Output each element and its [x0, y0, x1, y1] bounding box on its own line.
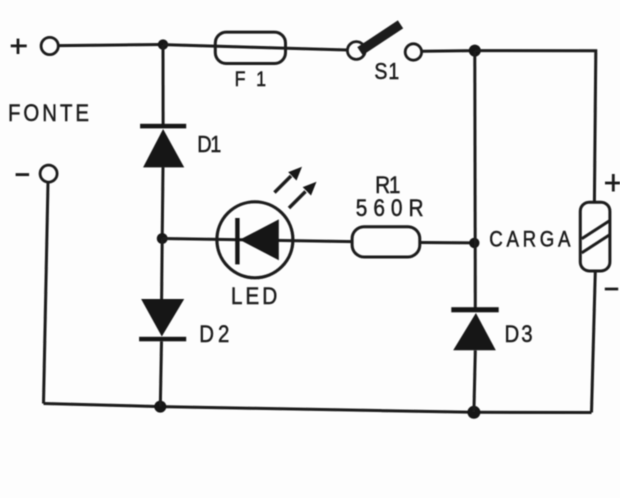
LED cathode bar [235, 218, 239, 264]
LED triangle [240, 219, 279, 260]
wire D3 to bottom junction [474, 350, 475, 412]
plus sign of load [605, 174, 620, 192]
wire middle junction down to D2 [160, 239, 164, 300]
node middle-right junction [469, 238, 479, 248]
wire left branch: top junction down to D1 [162, 45, 165, 125]
svg-text:D1: D1 [197, 131, 221, 158]
svg-text:FONTE: FONTE [8, 99, 89, 126]
LED circle [217, 202, 293, 278]
terminal circle plus [41, 37, 58, 54]
svg-text:S1: S1 [374, 59, 399, 85]
node top-left junction [158, 39, 168, 49]
wire middle rail: junction through LED to R1 [162, 239, 352, 242]
minus sign of load [605, 288, 618, 291]
svg-text:D2: D2 [199, 321, 229, 348]
svg-text:LED: LED [231, 281, 277, 309]
wire R1 to middle-right junction [420, 241, 475, 244]
LED arrow 2 [289, 182, 317, 208]
wire minus terminal down to bottom rail [44, 182, 49, 403]
wire top-right corner down to load [475, 51, 596, 203]
wire D1 to middle junction [161, 167, 165, 238]
node bottom-left junction [154, 401, 166, 413]
wire D2 to bottom rail [160, 341, 161, 406]
plus sign of FONTE [11, 39, 27, 54]
diode D3 [451, 307, 498, 350]
minus sign of FONTE [16, 173, 30, 176]
fuse F1 [215, 32, 285, 63]
node bottom-middle junction [467, 406, 480, 419]
resistor R1 body [352, 227, 420, 257]
svg-text:F1: F1 [235, 68, 266, 92]
switch S1 [347, 27, 421, 60]
svg-text:D3: D3 [504, 321, 532, 348]
wire switch to top-right junction [422, 49, 475, 53]
LED arrow 1 [275, 167, 303, 193]
wire top: terminal to junction [58, 45, 163, 46]
node middle-left junction [157, 233, 168, 244]
wire load bottom to bottom-right corner [592, 271, 596, 413]
diode D1 [140, 124, 186, 168]
load CARGA symbol [580, 202, 610, 271]
svg-text:CARGA: CARGA [489, 228, 571, 252]
diode D2 [139, 299, 186, 341]
wire bottom rail [44, 404, 592, 413]
wire right branch: top junction down through middle junction to D3 [473, 51, 477, 308]
wire junction to switch S1 [163, 45, 348, 50]
terminal circle minus [40, 165, 57, 182]
node top-right junction [469, 45, 481, 57]
